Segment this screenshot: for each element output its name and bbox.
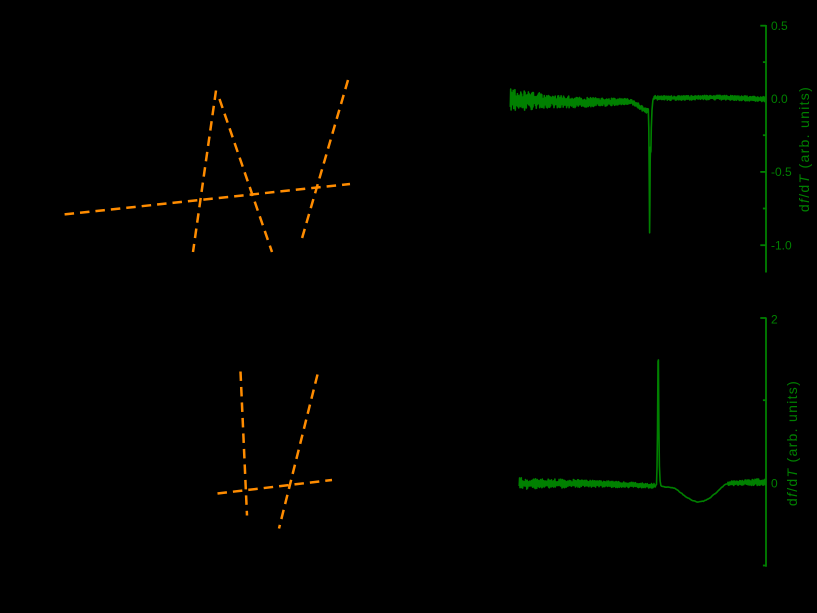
top axis tick labels	[771, 19, 792, 252]
svg-text:0: 0	[771, 477, 778, 491]
minor ticks bottom axis	[763, 399, 766, 401]
major ticks top axis	[760, 25, 766, 27]
svg-text:df/dT (arb. units): df/dT (arb. units)	[796, 86, 812, 212]
major ticks bottom axis	[760, 317, 766, 319]
fit line D (near-vertical, bottom panel)	[241, 372, 248, 516]
fit line S1 (shallow baseline, top panel)	[65, 184, 350, 214]
svg-text:-1.0: -1.0	[771, 238, 792, 252]
fit line A (steep ascent, top panel)	[193, 91, 216, 253]
svg-text:2: 2	[771, 313, 778, 327]
svg-text:df/dT (arb. units): df/dT (arb. units)	[784, 380, 800, 506]
fit line B (descent, top panel)	[220, 99, 273, 252]
bottom axis tick labels	[771, 313, 778, 491]
fit line E (steep descent, bottom panel)	[279, 375, 318, 529]
svg-text:0.0: 0.0	[771, 92, 788, 106]
top-left panel: orange dashed linear fits	[65, 80, 350, 529]
minor ticks top axis	[763, 61, 766, 63]
bottom-right green axis spine	[760, 318, 766, 567]
top-right derivative trace	[510, 89, 765, 233]
svg-text:-0.5: -0.5	[771, 165, 792, 179]
fit line F (shallow baseline, bottom panel)	[218, 480, 333, 494]
svg-text:0.5: 0.5	[771, 19, 788, 33]
fit line C (right ascent, top panel)	[301, 80, 349, 244]
top-right green axis spine	[760, 25, 766, 273]
bottom-right derivative trace	[519, 360, 765, 502]
